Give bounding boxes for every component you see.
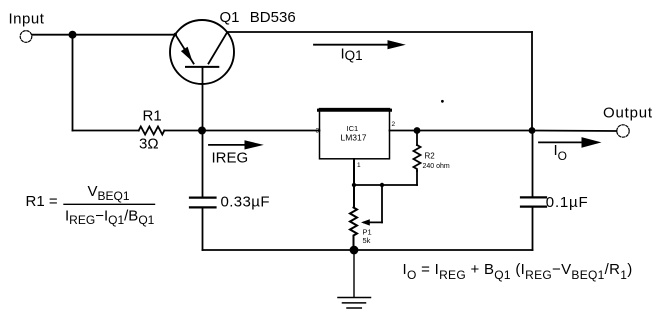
- svg-text:3Ω: 3Ω: [139, 136, 159, 153]
- svg-text:IREG: IREG: [212, 150, 249, 167]
- svg-text:VBEQ1: VBEQ1: [88, 183, 130, 203]
- svg-text:R2: R2: [425, 152, 436, 161]
- svg-text:Input: Input: [9, 11, 45, 28]
- svg-text:IREG−IQ1/BQ1: IREG−IQ1/BQ1: [65, 208, 155, 228]
- svg-text:R1: R1: [143, 108, 162, 125]
- svg-text:0.1µF: 0.1µF: [546, 194, 589, 211]
- svg-text:BD536: BD536: [250, 9, 296, 26]
- svg-text:240 ohm: 240 ohm: [423, 163, 450, 170]
- svg-text:2: 2: [392, 121, 396, 128]
- svg-text:Q1: Q1: [220, 9, 240, 26]
- svg-text:5k: 5k: [363, 236, 371, 245]
- svg-text:IO = IREG + BQ1 (IREG−VBEQ1/R: IO = IREG + BQ1 (IREG−VBEQ1/R1): [403, 261, 633, 282]
- svg-text:0.33µF: 0.33µF: [221, 193, 270, 210]
- svg-text:R1 =: R1 =: [26, 193, 58, 210]
- svg-text:Output: Output: [603, 105, 653, 122]
- svg-text:IO: IO: [554, 142, 568, 163]
- svg-text:1: 1: [357, 162, 361, 169]
- svg-text:3: 3: [316, 128, 320, 135]
- svg-text:IQ1: IQ1: [341, 46, 363, 64]
- svg-text:LM317: LM317: [341, 133, 367, 143]
